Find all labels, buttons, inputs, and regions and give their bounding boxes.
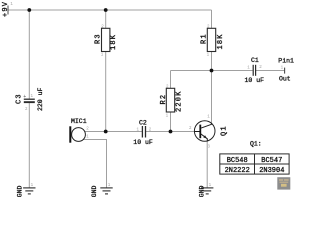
svg-text:R3: R3 xyxy=(95,33,103,44)
wire R1 bottom to collector node xyxy=(211,52,213,71)
svg-text:R2: R2 xyxy=(160,94,168,105)
ground GND emitter xyxy=(201,188,213,194)
transistor Q1 xyxy=(194,121,215,142)
svg-text:C3: C3 xyxy=(16,93,24,104)
resistor R1 xyxy=(207,28,215,51)
svg-text:2: 2 xyxy=(259,66,262,70)
svg-text:GND: GND xyxy=(198,185,205,197)
svg-text:GND: GND xyxy=(16,185,23,197)
svg-text:2N3904: 2N3904 xyxy=(259,167,284,175)
svg-text:220K: 220K xyxy=(175,90,183,112)
svg-text:+: + xyxy=(23,94,26,100)
svg-text:Out: Out xyxy=(279,76,291,83)
node dot collector / out xyxy=(210,69,214,73)
ground GND left xyxy=(23,188,35,194)
table Q1 equivalents xyxy=(220,154,289,174)
wire emitter to ground xyxy=(206,141,208,188)
node dot mic / R3 xyxy=(104,130,108,134)
capacitor C1 xyxy=(252,65,254,76)
watermark logo square xyxy=(277,177,290,189)
wire R3 bottom to signal node xyxy=(105,52,107,132)
svg-text:1: 1 xyxy=(207,115,210,119)
svg-text:1: 1 xyxy=(166,115,169,119)
svg-text:BC548: BC548 xyxy=(227,157,248,165)
svg-text:2: 2 xyxy=(86,127,89,131)
wire out rail left of C1 xyxy=(171,70,253,72)
capacitor C2 xyxy=(141,126,143,138)
svg-text:220 uF: 220 uF xyxy=(37,87,44,111)
node dot top rail / R3 xyxy=(104,8,108,12)
svg-text:R1: R1 xyxy=(201,33,209,44)
svg-text:1: 1 xyxy=(207,54,210,58)
wire C3 column top xyxy=(28,10,30,99)
svg-text:1: 1 xyxy=(281,66,284,70)
svg-text:1: 1 xyxy=(101,54,104,58)
capacitor C3 (polarized 220uF) xyxy=(24,98,35,100)
resistor R3 xyxy=(102,28,110,51)
svg-text:Pin1: Pin1 xyxy=(278,58,294,65)
wire mic output to C2 xyxy=(85,131,143,133)
node dot base / R2 xyxy=(169,130,173,134)
wire top rail +9V xyxy=(8,9,212,11)
resistor R2 xyxy=(166,88,174,112)
ground GND mic xyxy=(100,188,112,194)
wire C2 to base xyxy=(146,131,195,133)
svg-text:MIC1: MIC1 xyxy=(71,118,87,125)
svg-text:10 uF: 10 uF xyxy=(133,139,153,146)
wire R2 top to out rail xyxy=(170,71,172,89)
wire R2 bottom to base node xyxy=(170,112,172,132)
svg-text:Q1: Q1 xyxy=(220,125,228,136)
svg-text:10 uF: 10 uF xyxy=(245,77,265,84)
svg-text:2: 2 xyxy=(25,108,28,112)
svg-text:Q1:: Q1: xyxy=(250,141,262,148)
svg-text:1: 1 xyxy=(10,3,13,7)
terminal +9V xyxy=(7,6,9,15)
svg-text:3: 3 xyxy=(207,145,210,149)
node dot top rail / C3 xyxy=(27,8,31,12)
svg-text:+9V: +9V xyxy=(2,1,10,17)
svg-text:C2: C2 xyxy=(139,120,147,127)
wire R1 column top xyxy=(211,10,213,28)
svg-text:2N2222: 2N2222 xyxy=(225,167,250,175)
wire C1 to Pin1 xyxy=(256,70,285,72)
svg-text:GND: GND xyxy=(91,185,98,197)
wire mic ground drop xyxy=(83,140,107,188)
svg-text:BC547: BC547 xyxy=(261,157,282,165)
svg-text:18K: 18K xyxy=(217,33,225,49)
svg-text:2: 2 xyxy=(189,127,192,131)
terminal Pin1 Out xyxy=(284,68,286,74)
svg-text:18K: 18K xyxy=(110,34,118,50)
wire collector xyxy=(211,71,213,124)
wire R3 column top xyxy=(105,10,107,28)
microphone MIC1 xyxy=(72,128,86,142)
svg-text:C1: C1 xyxy=(251,57,259,64)
wire C3 bottom to ground xyxy=(28,103,30,188)
svg-text:1: 1 xyxy=(247,66,250,70)
